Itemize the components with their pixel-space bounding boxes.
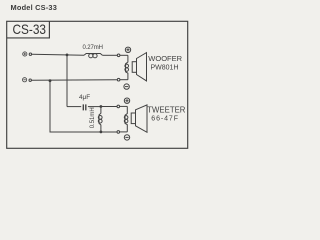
woofer magnet: [132, 62, 136, 73]
svg-text:0.27mH: 0.27mH: [83, 45, 103, 51]
tweeter cone: [136, 105, 148, 132]
node A junction on top rail: [66, 54, 69, 57]
svg-text:0.51mH: 0.51mH: [90, 107, 96, 128]
wire tweeter top plug to spine: [120, 105, 128, 107]
input plug circle minus: [29, 79, 31, 81]
svg-text:4μF: 4μF: [79, 94, 90, 101]
woofer terminal plus: [125, 47, 130, 52]
label box CS-33: [7, 21, 50, 38]
wire top rail from plus input to inductor: [32, 54, 84, 55]
woofer cone: [137, 53, 147, 81]
tweeter terminal minus: [124, 135, 129, 140]
svg-text:66-47F: 66-47F: [151, 116, 179, 123]
wire branch from node A down: [66, 55, 68, 107]
inductor L1 0.27mH: [84, 54, 102, 58]
input terminal plus: [23, 52, 27, 56]
woofer terminal minus: [124, 84, 129, 89]
tweeter voice coil: [124, 106, 128, 131]
wire bottom rail from minus input to woofer plug: [31, 79, 117, 82]
capacitor C1 4uF: [83, 104, 86, 110]
node D junction bottom of shunt: [100, 131, 103, 134]
node B junction: [100, 105, 103, 108]
tweeter terminal plus: [124, 98, 129, 103]
wire capacitor to node B: [88, 106, 100, 108]
wire branch corner to capacitor: [67, 106, 81, 108]
svg-text:PW801H: PW801H: [151, 65, 179, 72]
plug circle woofer plus: [117, 54, 120, 57]
wire from inductor to woofer plug: [102, 54, 117, 56]
wire bottom branch rail from node C: [50, 81, 117, 132]
plug circle tweeter minus: [117, 131, 120, 134]
inductor L2 shunt 0.51mH: [98, 107, 102, 132]
tweeter magnet: [131, 113, 135, 124]
plug circle tweeter plus: [117, 105, 120, 108]
wire plug to tweeter spine: [120, 131, 128, 133]
svg-text:CS-33: CS-33: [13, 21, 47, 37]
input terminal minus: [23, 78, 27, 82]
schematic border frame: [7, 21, 188, 148]
node C junction on bottom rail: [49, 79, 52, 82]
woofer voice coil: [125, 55, 129, 79]
input plug circle plus: [29, 53, 31, 55]
svg-text:WOOFER: WOOFER: [148, 54, 182, 63]
plug circle woofer minus: [117, 78, 120, 81]
wire plug to woofer spine: [120, 54, 128, 56]
woofer bottom wire to plug: [120, 79, 128, 81]
svg-text:TWEETER: TWEETER: [147, 105, 185, 114]
wire node B to tweeter plug: [101, 106, 117, 108]
svg-text:Model CS-33: Model CS-33: [11, 3, 58, 12]
